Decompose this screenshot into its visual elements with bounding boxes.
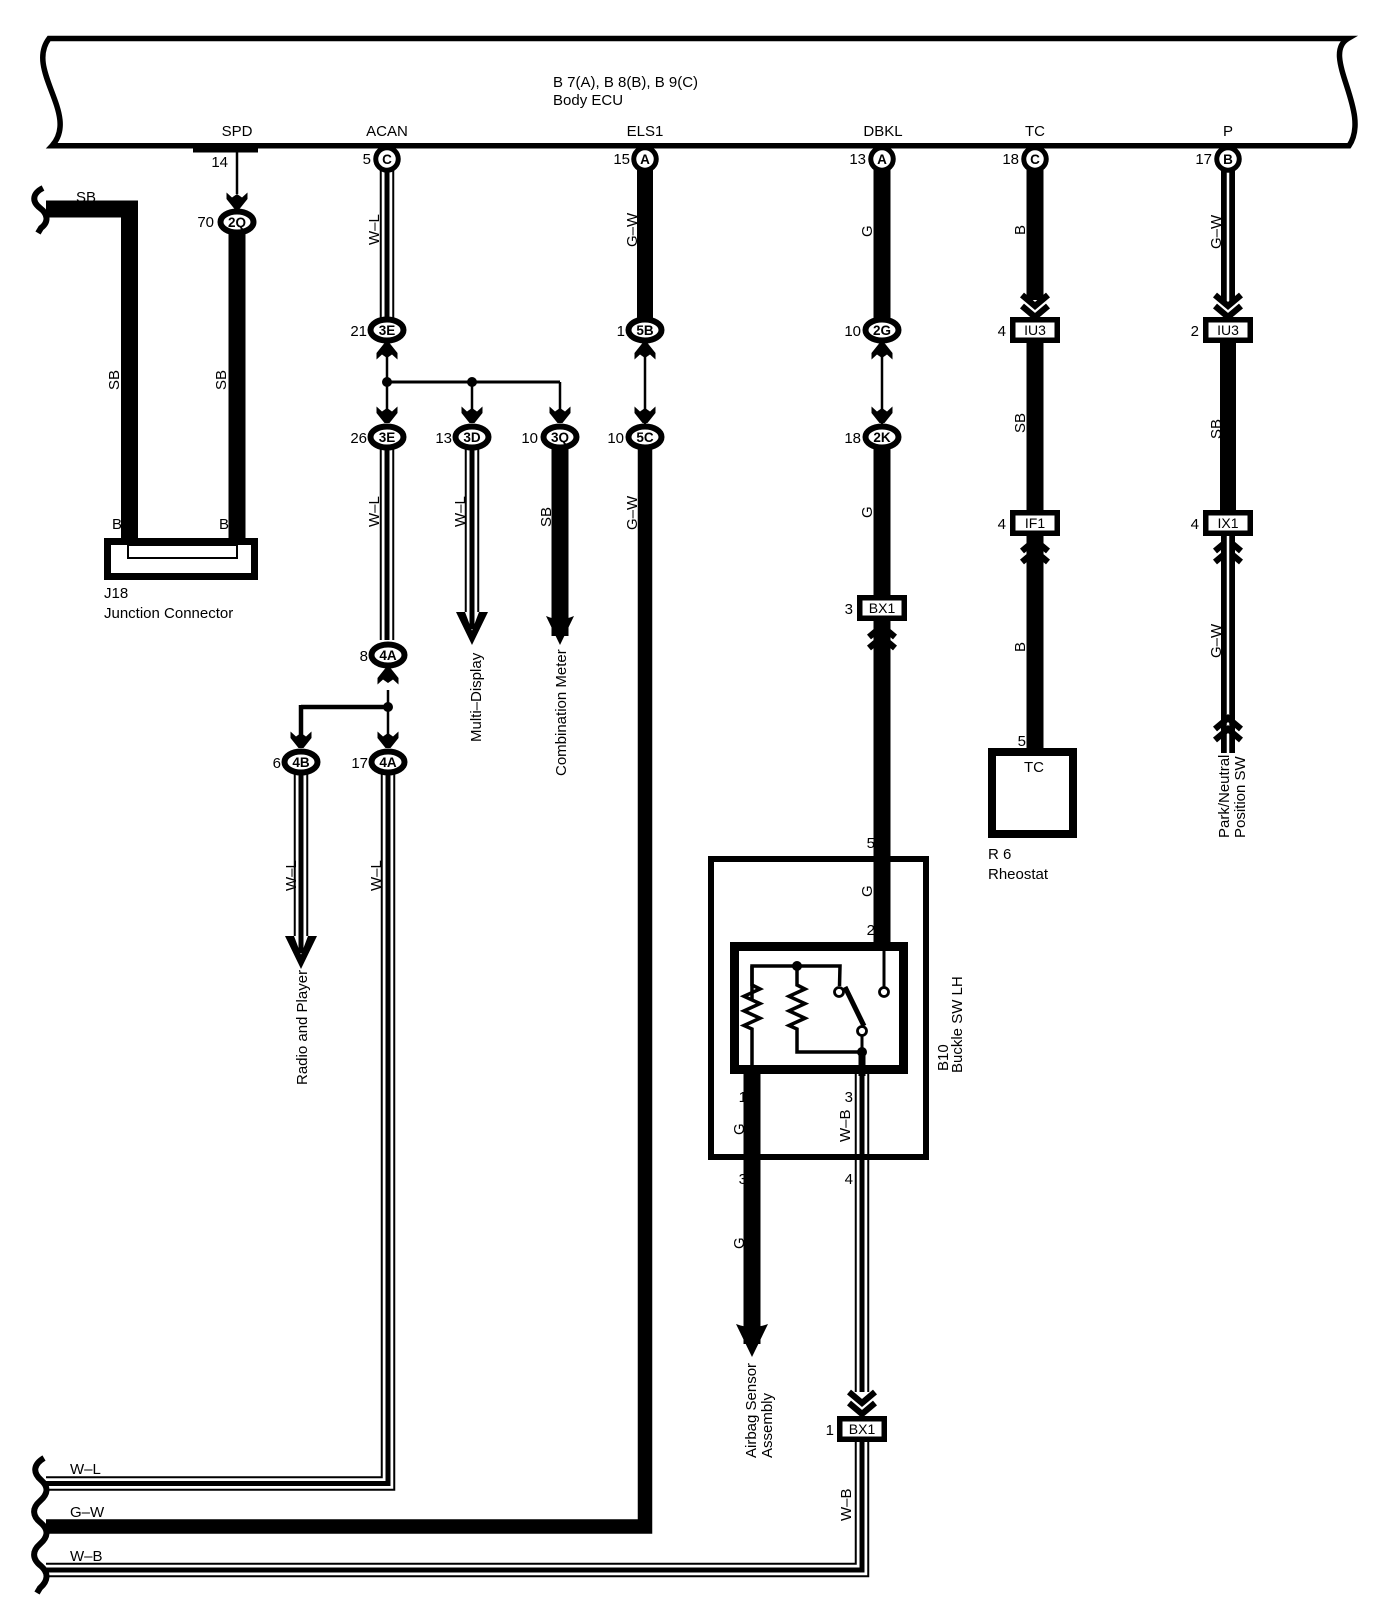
pin name SPD bbox=[222, 123, 253, 140]
label G DBKL bbox=[859, 225, 876, 237]
label W-L bottom run bbox=[70, 1461, 101, 1478]
relay block IF1 pin4 bbox=[1013, 513, 1058, 534]
label 21 bbox=[350, 323, 367, 340]
svg-text:TC: TC bbox=[1024, 759, 1044, 776]
label Combination Meter bbox=[553, 649, 570, 776]
label Rheostat bbox=[988, 866, 1049, 883]
svg-text:SPD: SPD bbox=[222, 123, 253, 140]
label W-L mid bbox=[366, 496, 383, 527]
svg-text:IU3: IU3 bbox=[1217, 322, 1239, 338]
switch fixed contact bbox=[835, 988, 844, 997]
label SB 3Q bbox=[538, 507, 555, 527]
svg-text:3Q: 3Q bbox=[551, 430, 569, 445]
connector oval 4A pin17 bbox=[372, 752, 405, 773]
label 6 bbox=[273, 755, 281, 772]
label SB P bbox=[1208, 419, 1225, 439]
label 18 for 2K bbox=[844, 430, 861, 447]
wire W-B buckle pin3 to BX1 bbox=[856, 1074, 869, 1392]
arrow up into 5B bbox=[635, 343, 656, 360]
svg-text:SB: SB bbox=[76, 189, 96, 206]
label W-L 4B bbox=[283, 860, 300, 891]
label G-W P lower bbox=[1208, 623, 1225, 658]
arrow down into 2K bbox=[872, 407, 893, 424]
wire stub to 3E26 bbox=[386, 382, 389, 420]
wire SB 3Q to Combination Meter bbox=[552, 449, 569, 636]
label 17 bbox=[351, 755, 368, 772]
pin circle A ELS1 bbox=[634, 148, 657, 171]
svg-text:SB: SB bbox=[106, 370, 123, 390]
arrow up into 4A8 bbox=[378, 668, 399, 685]
svg-text:2: 2 bbox=[1191, 323, 1199, 340]
wire SB 2Q to J18 bbox=[229, 234, 246, 545]
svg-text:G: G bbox=[859, 225, 876, 237]
wire G-W IX1 to Park/Neutral SW bbox=[1221, 536, 1235, 753]
splice hook on SB wire bbox=[34, 188, 46, 233]
arrow chevrons up below IX1 bbox=[1215, 540, 1241, 562]
svg-text:3D: 3D bbox=[463, 430, 481, 445]
svg-text:18: 18 bbox=[844, 430, 861, 447]
svg-text:G: G bbox=[731, 1237, 748, 1249]
pin name DBKL bbox=[863, 123, 902, 140]
label 3 buckle inner right bbox=[845, 1089, 853, 1106]
svg-text:W–B: W–B bbox=[837, 1109, 854, 1142]
connector oval 4A pin8 bbox=[372, 645, 405, 666]
label 4 for IF1 bbox=[998, 516, 1006, 533]
arrow chevrons into BX1 pin1 bbox=[849, 1392, 875, 1414]
connector oval 3D pin13 bbox=[456, 427, 489, 448]
pin circle C TC bbox=[1024, 148, 1047, 171]
svg-text:W–L: W–L bbox=[366, 496, 383, 527]
wire SB IU3 to IX1 bbox=[1220, 343, 1236, 513]
label 8 bbox=[360, 648, 368, 665]
arrow to Multi-Display bbox=[456, 612, 488, 645]
svg-text:Assembly: Assembly bbox=[759, 1392, 776, 1458]
label SB right vertical bbox=[213, 370, 230, 390]
svg-text:15: 15 bbox=[613, 151, 630, 168]
label G buckle left bbox=[731, 1123, 748, 1135]
svg-text:21: 21 bbox=[350, 323, 367, 340]
branch line at y382 bbox=[387, 381, 560, 384]
svg-text:W–L: W–L bbox=[368, 860, 385, 891]
svg-text:13: 13 bbox=[435, 430, 452, 447]
branch line at y707 bbox=[301, 705, 388, 710]
label G buckle bbox=[859, 885, 876, 897]
svg-text:4B: 4B bbox=[292, 755, 310, 770]
svg-text:Position SW: Position SW bbox=[1232, 755, 1249, 838]
svg-text:A: A bbox=[640, 152, 650, 167]
label Airbag Sensor bbox=[743, 1363, 760, 1458]
svg-text:B: B bbox=[1223, 152, 1233, 167]
svg-text:G–W: G–W bbox=[624, 212, 641, 247]
wire 2G to 2K bbox=[881, 340, 884, 424]
svg-text:4: 4 bbox=[998, 516, 1006, 533]
pin circle A DBKL bbox=[871, 148, 894, 171]
J18 junction connector box bbox=[108, 542, 255, 577]
svg-text:SB: SB bbox=[1012, 413, 1029, 433]
svg-text:C: C bbox=[1030, 152, 1040, 167]
label 4 for IU3 bbox=[998, 323, 1006, 340]
label 4 buckle outer right bbox=[845, 1171, 853, 1188]
rheostat R6 box bbox=[992, 752, 1073, 834]
connector oval 5C pin10 bbox=[629, 427, 662, 448]
svg-text:5: 5 bbox=[363, 151, 371, 168]
splice hook bottom runs bbox=[34, 1458, 46, 1593]
svg-text:70: 70 bbox=[197, 214, 214, 231]
connector oval 5B pin1 bbox=[629, 320, 662, 341]
label Position SW bbox=[1232, 755, 1249, 838]
switch arm bbox=[845, 987, 864, 1026]
label SB horizontal bbox=[76, 189, 96, 206]
label 5 buckle outer bbox=[867, 835, 875, 852]
wire B TC to IU3 bbox=[1027, 168, 1044, 300]
arrow down into 4A17 bbox=[378, 732, 399, 749]
svg-text:6: 6 bbox=[273, 755, 281, 772]
svg-text:IU3: IU3 bbox=[1024, 322, 1046, 338]
wire W-L ACAN C to 3E bbox=[381, 168, 394, 318]
label R 6 bbox=[988, 846, 1011, 863]
label 15 ELS1 bbox=[613, 151, 630, 168]
wire 3E21 to junction bbox=[386, 340, 389, 382]
svg-text:1: 1 bbox=[826, 1422, 834, 1439]
connector oval 2K pin18 bbox=[866, 427, 899, 448]
svg-text:G–W: G–W bbox=[624, 495, 641, 530]
connector oval 4B pin6 bbox=[285, 752, 318, 773]
svg-text:8: 8 bbox=[360, 648, 368, 665]
arrow chevrons up below BX1 bbox=[869, 626, 895, 648]
svg-text:A: A bbox=[877, 152, 887, 167]
svg-text:DBKL: DBKL bbox=[863, 123, 902, 140]
pin name ELS1 bbox=[627, 123, 664, 140]
arrow to Combination Meter bbox=[546, 616, 574, 645]
label Park/Neutral bbox=[1216, 755, 1233, 838]
label 5 rheostat bbox=[1018, 733, 1026, 750]
label Radio and Player bbox=[294, 970, 311, 1085]
pin name ACAN bbox=[366, 123, 408, 140]
svg-text:Radio and Player: Radio and Player bbox=[294, 970, 311, 1085]
label W-B bottom run bbox=[70, 1548, 103, 1565]
label 1 buckle inner left bbox=[739, 1089, 747, 1106]
svg-text:B 7(A), B 8(B), B 9(C): B 7(A), B 8(B), B 9(C) bbox=[553, 74, 698, 91]
label 3 for BX1 bbox=[845, 601, 853, 618]
svg-text:2Q: 2Q bbox=[228, 215, 246, 230]
connector oval 3E pin26 bbox=[371, 427, 404, 448]
svg-text:3E: 3E bbox=[379, 430, 396, 445]
arrow down into 3E26 bbox=[377, 407, 398, 424]
svg-text:SB: SB bbox=[538, 507, 555, 527]
svg-text:B: B bbox=[1012, 642, 1029, 652]
svg-text:B: B bbox=[112, 516, 122, 533]
label 5 ACAN bbox=[363, 151, 371, 168]
svg-text:W–B: W–B bbox=[838, 1488, 855, 1521]
connector oval 2Q bbox=[221, 212, 254, 233]
label G 2K bbox=[859, 506, 876, 518]
label 10 for 3Q bbox=[521, 430, 538, 447]
switch lead to junction bbox=[861, 1036, 864, 1052]
svg-text:IX1: IX1 bbox=[1217, 515, 1238, 531]
pin name TC bbox=[1025, 123, 1045, 140]
wire G DBKL A to 2G bbox=[874, 168, 891, 318]
arrow up into 2G bbox=[872, 343, 893, 360]
label G-W bottom run bbox=[70, 1504, 105, 1521]
Body ECU block outline bbox=[43, 39, 1355, 146]
svg-text:G: G bbox=[859, 506, 876, 518]
wire SB from splice to J18 (L-shape) bbox=[46, 209, 130, 545]
buckle pin2 terminal bbox=[880, 988, 889, 997]
svg-text:5: 5 bbox=[1018, 733, 1026, 750]
junction dot A1 bbox=[382, 377, 392, 387]
label Junction Connector bbox=[104, 605, 233, 622]
svg-text:IF1: IF1 bbox=[1025, 515, 1045, 531]
svg-text:4: 4 bbox=[1191, 516, 1199, 533]
pin circle C ACAN bbox=[376, 148, 399, 171]
svg-text:Buckle SW LH: Buckle SW LH bbox=[949, 976, 966, 1073]
buckle internal top line bbox=[752, 966, 840, 1000]
relay block IU3 pin2 bbox=[1206, 320, 1251, 341]
label 3 buckle outer left bbox=[739, 1171, 747, 1188]
connector oval 3E pin21 bbox=[371, 320, 404, 341]
arrow chevrons up to Park/Neutral SW bbox=[1215, 718, 1241, 740]
label Assembly bbox=[759, 1392, 776, 1458]
wire G into buckle re-draw bbox=[874, 856, 891, 945]
label SB TC bbox=[1012, 413, 1029, 433]
svg-text:Rheostat: Rheostat bbox=[988, 866, 1049, 883]
svg-text:10: 10 bbox=[607, 430, 624, 447]
wire W-L 3D to Multi-Display bbox=[466, 449, 479, 629]
svg-text:SB: SB bbox=[213, 370, 230, 390]
svg-text:4A: 4A bbox=[379, 755, 397, 770]
svg-text:ACAN: ACAN bbox=[366, 123, 408, 140]
SPD terminal stub bbox=[193, 146, 258, 153]
label 2 buckle inner bbox=[867, 922, 875, 939]
svg-text:W–L: W–L bbox=[70, 1461, 101, 1478]
wire G-W 5C to bottom run bbox=[46, 449, 645, 1527]
label B left bbox=[112, 516, 122, 533]
arrow chevrons into IU3 P bbox=[1215, 295, 1241, 317]
label W-L 3D bbox=[452, 496, 469, 527]
label Buckle SW LH bbox=[949, 976, 966, 1073]
svg-text:26: 26 bbox=[350, 430, 367, 447]
svg-text:Combination Meter: Combination Meter bbox=[553, 649, 570, 776]
label W-B below BX1 bbox=[838, 1488, 855, 1521]
junction dot buckle top bbox=[792, 961, 802, 971]
label J18 bbox=[104, 585, 128, 602]
wire stub to 4B bbox=[299, 705, 304, 745]
label SB left vertical bbox=[106, 370, 123, 390]
svg-text:G–W: G–W bbox=[1208, 214, 1225, 249]
svg-text:4: 4 bbox=[845, 1171, 853, 1188]
wire B IF1 to rheostat bbox=[1027, 536, 1044, 750]
svg-text:R 6: R 6 bbox=[988, 846, 1011, 863]
wire G 2K to BX1 bbox=[874, 449, 891, 598]
svg-text:14: 14 bbox=[211, 154, 228, 171]
wire SB IU3 to IF1 bbox=[1027, 343, 1044, 513]
junction dot B1 bbox=[383, 702, 393, 712]
wire G BX1 to buckle switch bbox=[874, 621, 891, 945]
label B IF1 bbox=[1012, 642, 1029, 652]
wire junction through inner box bbox=[859, 1052, 866, 1076]
connector oval 3Q pin10 bbox=[544, 427, 577, 448]
label W-L 4A17 bbox=[368, 860, 385, 891]
relay block IU3 pin4 bbox=[1013, 320, 1058, 341]
wire 5B to 5C bbox=[644, 340, 647, 424]
label G-W P bbox=[1208, 214, 1225, 249]
svg-text:J18: J18 bbox=[104, 585, 128, 602]
wire G-W P to IU3 bbox=[1221, 168, 1235, 303]
wire stub to 4A17 bbox=[387, 707, 390, 745]
relay block BX1 pin3 bbox=[860, 598, 905, 619]
label Multi-Display bbox=[468, 652, 485, 742]
svg-text:5C: 5C bbox=[636, 430, 654, 445]
svg-text:10: 10 bbox=[521, 430, 538, 447]
arrow down into 4B bbox=[291, 732, 312, 749]
label W-B buckle bbox=[837, 1109, 854, 1142]
arrow down into 3D bbox=[462, 407, 483, 424]
svg-text:17: 17 bbox=[351, 755, 368, 772]
label 4 for IX1 bbox=[1191, 516, 1199, 533]
pin name P bbox=[1223, 123, 1233, 140]
svg-text:W–L: W–L bbox=[283, 860, 300, 891]
buckle pin2 lead bbox=[883, 948, 886, 988]
svg-text:BX1: BX1 bbox=[869, 600, 896, 616]
svg-text:B: B bbox=[219, 516, 229, 533]
svg-text:SB: SB bbox=[1208, 419, 1225, 439]
wire W-L 4A17 to bottom run bbox=[46, 774, 394, 1490]
wire 4A8 to junction bbox=[387, 690, 390, 707]
wire W-B BX1 to bottom run bbox=[46, 1442, 868, 1576]
buckle switch inner box bbox=[735, 947, 904, 1070]
label 26 bbox=[350, 430, 367, 447]
arrow into 2Q bbox=[227, 193, 248, 210]
label 18 TC bbox=[1002, 151, 1019, 168]
wire stub to 3Q bbox=[559, 382, 562, 420]
wire G-W ELS1 A to 5B bbox=[637, 168, 653, 318]
junction dot A2 bbox=[467, 377, 477, 387]
label 13 for 3D bbox=[435, 430, 452, 447]
svg-text:4A: 4A bbox=[379, 648, 397, 663]
pin circle B P bbox=[1217, 148, 1240, 171]
switch moving contact bbox=[858, 1027, 867, 1036]
wire W-L 3E26 to 4A8 bbox=[381, 449, 394, 640]
label B TC bbox=[1012, 225, 1029, 235]
svg-text:G–W: G–W bbox=[70, 1504, 105, 1521]
label 17 P bbox=[1195, 151, 1212, 168]
svg-text:W–L: W–L bbox=[366, 214, 383, 245]
svg-text:Airbag Sensor: Airbag Sensor bbox=[743, 1363, 760, 1458]
label G airbag bbox=[731, 1237, 748, 1249]
arrow down into 3Q bbox=[550, 407, 571, 424]
svg-text:C: C bbox=[382, 152, 392, 167]
label 2 for IU3 P bbox=[1191, 323, 1199, 340]
Body ECU labels bbox=[553, 74, 698, 109]
svg-text:1: 1 bbox=[739, 1089, 747, 1106]
svg-text:Junction Connector: Junction Connector bbox=[104, 605, 233, 622]
svg-text:B: B bbox=[1012, 225, 1029, 235]
wire SPD thin lead bbox=[236, 148, 239, 194]
label 1 for BX1 bbox=[826, 1422, 834, 1439]
svg-text:2K: 2K bbox=[873, 430, 891, 445]
label 10 for 2G bbox=[844, 323, 861, 340]
label 10 for 5C bbox=[607, 430, 624, 447]
svg-text:G–W: G–W bbox=[1208, 623, 1225, 658]
svg-text:4: 4 bbox=[998, 323, 1006, 340]
label W-L ACAN bbox=[366, 214, 383, 245]
relay block BX1 pin1 bbox=[840, 1419, 885, 1440]
svg-text:W–L: W–L bbox=[452, 496, 469, 527]
arrow down into 5C bbox=[635, 407, 656, 424]
svg-text:13: 13 bbox=[849, 151, 866, 168]
label 70 bbox=[197, 214, 214, 231]
resistor R-left bbox=[744, 966, 760, 1070]
svg-text:G: G bbox=[731, 1123, 748, 1135]
svg-text:P: P bbox=[1223, 123, 1233, 140]
svg-text:1: 1 bbox=[617, 323, 625, 340]
svg-text:W–B: W–B bbox=[70, 1548, 103, 1565]
svg-text:17: 17 bbox=[1195, 151, 1212, 168]
svg-text:TC: TC bbox=[1025, 123, 1045, 140]
arrow to Radio and Player bbox=[285, 936, 317, 969]
svg-text:3E: 3E bbox=[379, 323, 396, 338]
arrow chevrons up below IF1 bbox=[1022, 540, 1048, 562]
arrow to Airbag Sensor bbox=[736, 1324, 768, 1357]
wire stub to 3D bbox=[471, 382, 474, 420]
svg-text:3: 3 bbox=[845, 1089, 853, 1106]
svg-text:2G: 2G bbox=[873, 323, 891, 338]
svg-text:3: 3 bbox=[739, 1171, 747, 1188]
buckle switch outer box bbox=[711, 859, 926, 1157]
svg-text:G: G bbox=[859, 885, 876, 897]
svg-text:3: 3 bbox=[845, 601, 853, 618]
label 13 DBKL bbox=[849, 151, 866, 168]
junction dot buckle bottom bbox=[857, 1047, 867, 1057]
relay block IX1 pin4 bbox=[1206, 513, 1251, 534]
connector oval 2G pin10 bbox=[866, 320, 899, 341]
wire G buckle pin1 to Airbag bbox=[744, 1070, 761, 1344]
svg-text:5: 5 bbox=[867, 835, 875, 852]
svg-text:Park/Neutral: Park/Neutral bbox=[1216, 755, 1233, 838]
label B right bbox=[219, 516, 229, 533]
label G-W 5C bbox=[624, 495, 641, 530]
label 1 for 5B bbox=[617, 323, 625, 340]
svg-text:BX1: BX1 bbox=[849, 1421, 876, 1437]
svg-text:10: 10 bbox=[844, 323, 861, 340]
arrow up into 3E21 bbox=[377, 343, 398, 360]
arrow chevrons into IU3 TC bbox=[1022, 295, 1048, 317]
label G-W ELS1 bbox=[624, 212, 641, 247]
label TC in rheostat bbox=[1024, 759, 1044, 776]
label 14 bbox=[211, 154, 228, 171]
wire W-L 4B to Radio bbox=[295, 774, 308, 953]
svg-text:Multi–Display: Multi–Display bbox=[468, 652, 485, 742]
svg-text:Body ECU: Body ECU bbox=[553, 92, 623, 109]
label B10 bbox=[935, 1044, 952, 1071]
svg-text:18: 18 bbox=[1002, 151, 1019, 168]
resistor R-mid bbox=[789, 966, 862, 1052]
svg-text:5B: 5B bbox=[636, 323, 654, 338]
svg-text:ELS1: ELS1 bbox=[627, 123, 664, 140]
